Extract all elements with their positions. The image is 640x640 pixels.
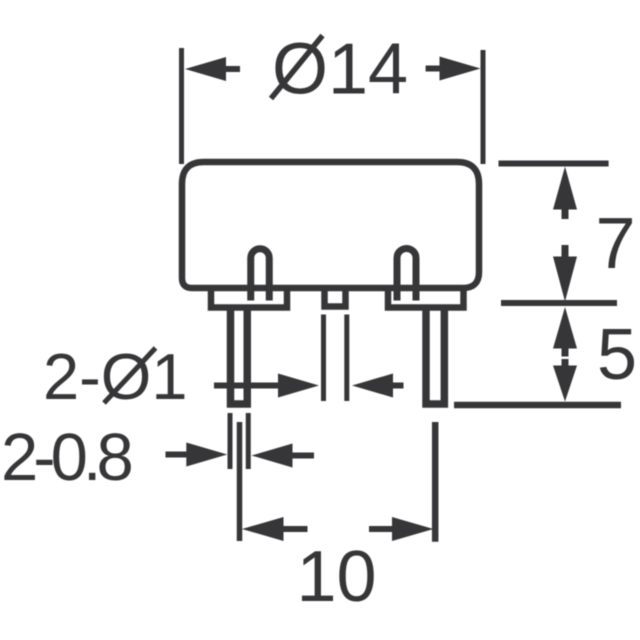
svg-text:2-0.8: 2-0.8 xyxy=(1,420,131,495)
svg-text:2-O1: 2-O1 xyxy=(43,340,188,413)
svg-text:10: 10 xyxy=(296,537,376,617)
svg-text:5: 5 xyxy=(597,315,637,395)
svg-text:7: 7 xyxy=(595,204,635,284)
